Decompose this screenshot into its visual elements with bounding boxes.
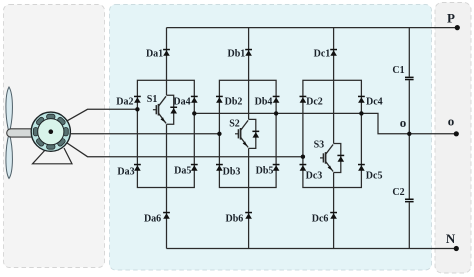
svg-text:Dc6: Dc6 xyxy=(312,213,329,224)
node phase c xyxy=(301,155,305,159)
diode Db5 xyxy=(273,164,280,171)
diode Dc6 xyxy=(330,212,337,219)
diode Da3 xyxy=(134,164,141,171)
wire S2 diode branch xyxy=(249,119,256,148)
svg-text:Da6: Da6 xyxy=(144,213,161,224)
wire phase c (generator to leg C) xyxy=(67,143,303,157)
svg-text:Da5: Da5 xyxy=(174,166,191,177)
switch S1 (IGBT) xyxy=(153,96,166,123)
wire neutral rail to o terminal xyxy=(194,113,456,133)
wire bridge loop C xyxy=(303,80,362,187)
svg-text:S3: S3 xyxy=(314,139,325,150)
svg-text:C2: C2 xyxy=(392,187,404,198)
terminal N xyxy=(454,246,459,251)
diode Da4 xyxy=(191,96,198,103)
generator subsystem box xyxy=(4,5,105,268)
junction leg A to neutral rail xyxy=(192,111,196,115)
svg-text:Db4: Db4 xyxy=(255,96,273,107)
svg-text:Da4: Da4 xyxy=(173,96,190,107)
svg-text:Dc1: Dc1 xyxy=(314,49,331,60)
generator shaft center dot xyxy=(49,129,54,134)
svg-text:Db1: Db1 xyxy=(228,49,246,60)
node phase a xyxy=(135,107,139,111)
diode Db4 xyxy=(273,96,280,103)
diode Db2 xyxy=(216,96,223,103)
wire bridge loop A xyxy=(137,80,194,187)
generator rotor inner circle xyxy=(38,119,64,145)
wire leg A center lower xyxy=(166,124,168,248)
terminal o xyxy=(454,131,459,136)
S2 antiparallel diode xyxy=(252,131,259,138)
svg-text:Db3: Db3 xyxy=(223,167,241,178)
generator stator slots xyxy=(33,114,68,149)
diode Db1 xyxy=(245,49,252,56)
svg-text:Dc4: Dc4 xyxy=(366,96,383,107)
svg-text:Da1: Da1 xyxy=(146,49,163,60)
svg-text:Db2: Db2 xyxy=(225,96,243,107)
svg-text:Db6: Db6 xyxy=(226,213,244,224)
svg-text:S1: S1 xyxy=(147,94,158,105)
svg-text:o: o xyxy=(400,115,407,130)
junction leg B to neutral rail xyxy=(274,111,278,115)
wire leg C center lower xyxy=(333,173,335,249)
svg-text:Da2: Da2 xyxy=(116,96,133,107)
svg-text:Dc2: Dc2 xyxy=(306,96,323,107)
diode Db6 xyxy=(245,212,252,219)
turbine blade upper xyxy=(6,87,13,133)
svg-text:Db5: Db5 xyxy=(256,166,274,177)
wire DC link capacitor branch xyxy=(408,28,410,249)
diode Da6 xyxy=(163,212,170,219)
svg-text:Dc3: Dc3 xyxy=(306,171,323,182)
diode Da5 xyxy=(191,164,198,171)
diode Dc4 xyxy=(358,96,365,103)
svg-text:N: N xyxy=(446,231,456,246)
svg-text:P: P xyxy=(447,10,455,25)
capacitor C2 xyxy=(405,199,414,203)
generator stand xyxy=(33,148,73,164)
wire phase a (generator to leg A) xyxy=(67,109,138,121)
wire leg C center upper xyxy=(333,28,335,144)
svg-text:S2: S2 xyxy=(229,119,240,130)
wire N rail xyxy=(167,248,457,250)
S1 antiparallel diode xyxy=(170,107,177,114)
diode Dc1 xyxy=(330,49,337,56)
svg-text:C1: C1 xyxy=(392,65,404,76)
wire leg A center upper xyxy=(166,28,168,96)
turbine shaft with rounded hub cap xyxy=(7,129,34,137)
junction capacitor midpoint xyxy=(407,132,411,136)
diode Da2 xyxy=(134,96,141,103)
terminal P xyxy=(455,25,460,30)
converter subsystem box xyxy=(110,5,432,271)
wire P rail xyxy=(167,27,458,29)
wire leg B center upper xyxy=(248,28,250,120)
S3 antiparallel diode xyxy=(337,155,344,162)
wire phase b (generator to leg B) xyxy=(70,133,219,135)
svg-text:Da3: Da3 xyxy=(117,167,134,178)
svg-text:o: o xyxy=(448,114,455,129)
generator G body xyxy=(31,112,70,151)
wire S3 diode branch xyxy=(334,144,341,173)
wire leg B center lower xyxy=(248,148,250,248)
diode Dc5 xyxy=(358,164,365,171)
node phase b xyxy=(217,132,221,136)
wire S1 diode branch xyxy=(167,95,174,124)
junction leg C to neutral rail xyxy=(359,111,363,115)
switch S3 (IGBT) xyxy=(320,145,333,172)
turbine blade lower xyxy=(6,133,13,179)
switch S2 (IGBT) xyxy=(235,120,248,147)
diode Dc3 xyxy=(300,164,307,171)
diode Dc2 xyxy=(300,96,307,103)
capacitor C1 xyxy=(405,77,414,81)
svg-text:Dc5: Dc5 xyxy=(366,171,383,182)
diode Da1 xyxy=(163,49,170,56)
wire bridge loop B xyxy=(219,80,276,187)
diode Db3 xyxy=(216,164,223,171)
DC terminal box xyxy=(435,3,471,274)
